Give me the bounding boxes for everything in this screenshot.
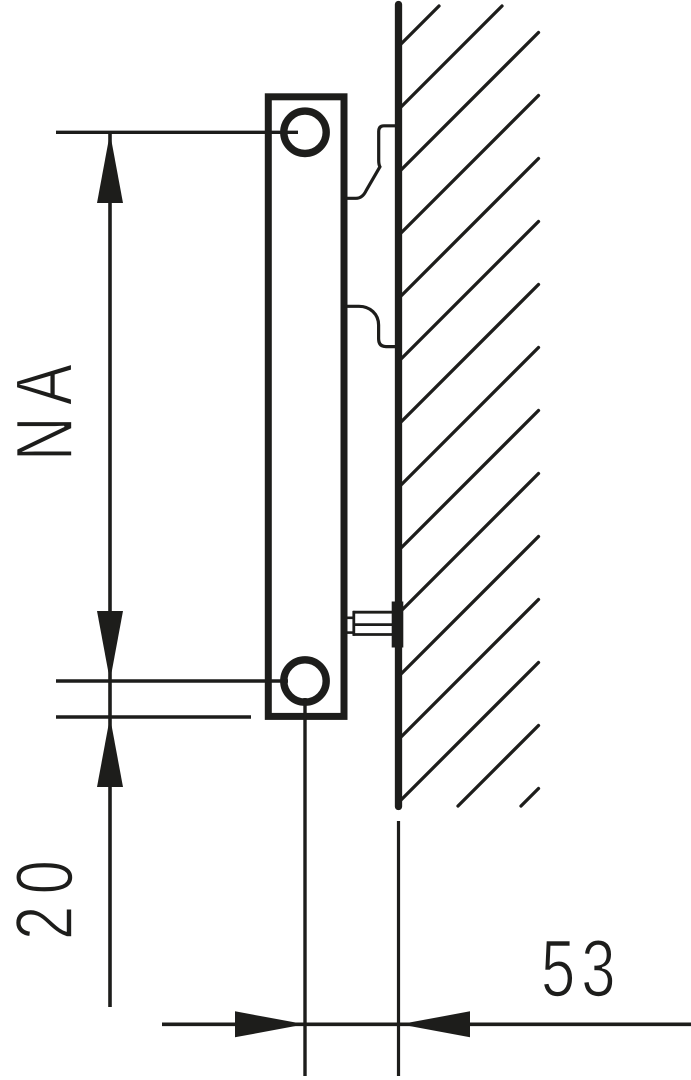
NA dimension arrow up [97,133,123,203]
svg-text:20: 20 [0,849,90,940]
53 dimension line [162,1023,691,1027]
top pipe connection [284,111,326,153]
lower mounting bracket [346,306,397,346]
svg-text:53: 53 [541,924,622,1014]
wall line [395,5,402,807]
wall hatching [401,6,539,806]
wall bolt shaft [353,611,393,636]
wall anchor plate [392,602,404,648]
top extension line [56,131,298,134]
svg-text:NA: NA [0,353,90,461]
53 dimension arrow left [400,1011,470,1037]
53 dimension arrow right [235,1011,305,1037]
bottom circle extension line [56,679,288,682]
wall bolt stubs [347,618,355,633]
20 dimension arrow up [97,717,123,787]
20 dimension line [108,717,112,1007]
wall face extension line [397,821,400,1076]
bottom pipe connection [284,660,326,702]
upper mounting bracket [346,126,396,199]
NA dimension line [108,133,112,717]
radiator bottom extension line [56,715,251,718]
pipe centre line [303,698,306,1076]
radiator body [268,97,344,717]
NA dimension arrow down [97,611,123,681]
